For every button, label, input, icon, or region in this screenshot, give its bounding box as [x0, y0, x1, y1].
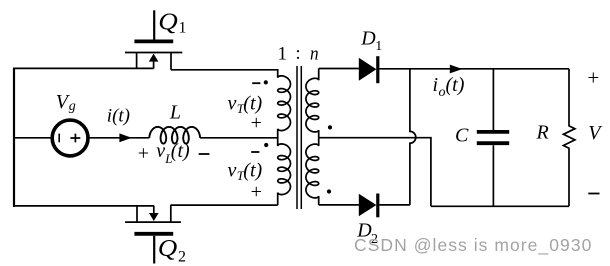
transformer primary upper winding — [278, 69, 291, 137]
transformer secondary lower winding — [306, 138, 319, 205]
polarity dot secondary lower — [327, 189, 331, 193]
transformer primary lower winding — [278, 137, 291, 205]
wire top rail left segment — [13, 67, 154, 69]
wire D1 to output node — [379, 68, 569, 70]
svg-text:+: + — [251, 112, 262, 134]
current arrow io(t) — [450, 65, 463, 74]
wire middle left (Vg to node) — [14, 137, 53, 139]
svg-text:CSDN @less is more_0930: CSDN @less is more_0930 — [354, 235, 592, 256]
wire middle (inductor to center tap) — [200, 137, 278, 138]
svg-text:D: D — [360, 28, 376, 50]
wire secondary center tap to output return — [319, 138, 431, 207]
svg-text:v: v — [228, 93, 237, 115]
transformer secondary upper winding — [306, 69, 319, 138]
diode D2 — [359, 194, 378, 218]
svg-text:L: L — [169, 102, 181, 124]
wire bottom rail right segment — [171, 204, 278, 206]
polarity dot primary upper — [264, 80, 268, 84]
svg-text:+: + — [587, 66, 599, 90]
label D1 — [360, 28, 382, 55]
label Vg — [56, 91, 76, 114]
svg-text:Q: Q — [158, 9, 178, 35]
svg-text:C: C — [455, 125, 469, 147]
svg-text:R: R — [536, 122, 549, 144]
transistor Q2 — [125, 205, 181, 263]
capacitor C — [477, 69, 509, 207]
svg-text:g: g — [69, 99, 76, 114]
resistor R — [563, 69, 575, 207]
label vT(t) lower with polarity — [228, 152, 263, 203]
svg-text::: : — [295, 43, 300, 64]
wire top rail right segment — [171, 69, 278, 71]
current arrow i(t) — [119, 133, 131, 142]
label output - — [588, 193, 599, 195]
label vT(t) upper with polarity — [228, 83, 263, 134]
polarity dot primary lower — [264, 143, 268, 147]
wire output bottom rail — [431, 205, 569, 207]
wire D2 cathode to output node (with hop) — [410, 69, 416, 205]
wire secondary upper lead to D1 — [319, 68, 359, 70]
svg-text:i(t): i(t) — [107, 106, 130, 127]
svg-text:2: 2 — [178, 249, 186, 266]
transformer core — [297, 66, 301, 209]
svg-text:1: 1 — [179, 20, 187, 37]
label + vL(t) - — [138, 140, 210, 166]
svg-text:v: v — [156, 140, 165, 162]
wire bottom rail left segment — [13, 205, 154, 207]
svg-text:Q: Q — [158, 236, 178, 262]
svg-text:i: i — [433, 74, 439, 96]
svg-text:+: + — [138, 142, 149, 164]
label Q1 — [158, 9, 186, 36]
polarity dot secondary upper — [328, 125, 332, 129]
svg-text:v: v — [228, 160, 237, 182]
wire left rail — [13, 68, 15, 207]
svg-text:(t): (t) — [446, 74, 465, 96]
label D2 — [356, 220, 378, 248]
svg-text:o: o — [439, 85, 446, 100]
wire middle (source to inductor) — [88, 137, 149, 139]
diode D1 — [359, 56, 378, 83]
svg-text:(t): (t) — [171, 140, 190, 162]
label Q2 — [158, 236, 186, 266]
svg-text:1: 1 — [375, 39, 382, 54]
wire secondary lower lead to D2 — [319, 204, 359, 206]
svg-text:V: V — [588, 122, 603, 144]
transistor Q1 — [125, 10, 182, 70]
svg-text:n: n — [310, 44, 319, 65]
voltage source Vg — [52, 120, 88, 156]
svg-text:1: 1 — [278, 44, 288, 65]
inductor L — [149, 127, 200, 144]
label io(t) — [433, 74, 465, 100]
svg-text:(t): (t) — [243, 160, 262, 182]
label 1 : n — [278, 43, 319, 64]
wire D2 to vertical — [379, 204, 410, 206]
svg-text:+: + — [251, 181, 262, 203]
